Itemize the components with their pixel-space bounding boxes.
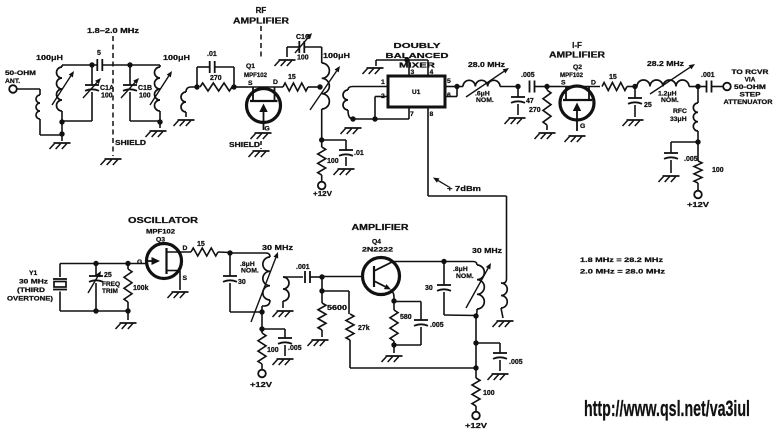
svg-text:Q4: Q4 (372, 239, 381, 246)
inductor L2 100uH (155, 53, 191, 111)
wire (234, 86, 248, 88)
variable arrow L1 (52, 71, 74, 105)
node (473, 340, 478, 345)
ground Q4 emitter (382, 345, 403, 362)
svg-text:.01: .01 (354, 150, 364, 157)
text +7dBm annotation (433, 178, 481, 194)
node (157, 119, 162, 124)
ground (341, 128, 362, 134)
ground C1C (275, 60, 296, 66)
inductor drain tank 100uH (322, 51, 350, 109)
text .6uH NOM (475, 91, 494, 105)
node output terminal (723, 83, 731, 91)
wire (230, 253, 266, 312)
node (59, 131, 64, 136)
svg-text:6: 6 (447, 92, 451, 99)
svg-text:25: 25 (104, 272, 112, 279)
capacitor .005 amp (476, 343, 523, 371)
inductor .6uH (457, 80, 518, 86)
text 100 osc (267, 347, 279, 354)
capacitor 25 (628, 87, 652, 118)
resistor 100 drain supply (318, 140, 326, 182)
variable arrow C1C (295, 33, 312, 53)
svg-text:27k: 27k (358, 325, 370, 332)
node (454, 84, 459, 89)
node (372, 116, 377, 121)
node (93, 308, 98, 313)
ground Q1 gate (251, 133, 272, 139)
svg-text:MPF102: MPF102 (244, 72, 267, 79)
svg-text:5: 5 (97, 50, 101, 57)
svg-text:NOM.: NOM. (456, 273, 474, 280)
ground mixer top (363, 68, 384, 74)
resistor 270 (200, 75, 232, 91)
capacitor 5pF feedthrough (97, 50, 130, 71)
svg-text:S: S (183, 275, 188, 282)
svg-text:100μH: 100μH (163, 53, 190, 62)
node +12V IF (687, 191, 709, 209)
inductor RF coupling winding (181, 87, 197, 117)
wire base (322, 276, 362, 278)
resistor 270 shunt (529, 87, 551, 131)
wire (130, 64, 160, 66)
wire gate rail (60, 263, 147, 265)
capacitor 30 osc (223, 253, 246, 312)
capacitor .01 bypass (339, 140, 364, 166)
ground (308, 340, 329, 346)
wire (547, 86, 560, 88)
inductor RFC 33uH (670, 87, 698, 143)
node (544, 84, 549, 89)
svg-text:STEP: STEP (740, 92, 762, 99)
svg-text:FREQ: FREQ (102, 281, 120, 288)
svg-text:S: S (561, 80, 566, 87)
svg-text:.8μH: .8μH (453, 266, 468, 273)
svg-text:100: 100 (139, 93, 151, 100)
node (473, 365, 478, 370)
wire emitter (393, 297, 395, 301)
svg-text:.005: .005 (288, 345, 302, 352)
svg-text:100μH: 100μH (323, 51, 350, 60)
capacitor .005 emitter (394, 302, 444, 346)
resistor 15 osc (191, 241, 218, 256)
pin 2 (375, 93, 388, 119)
svg-text:DOUBLY: DOUBLY (394, 41, 441, 50)
resistor 15 (283, 74, 308, 91)
svg-text:MPF102: MPF102 (146, 229, 175, 236)
svg-text:RF: RF (256, 6, 267, 15)
wire pins 3-4 ground rail (376, 60, 428, 66)
inductor LO coupling winding (501, 279, 507, 318)
svg-text:4: 4 (430, 69, 434, 76)
svg-text:2.0 MHz = 28.0 MHz: 2.0 MHz = 28.0 MHz (580, 269, 666, 276)
text 1.2uH NOM (658, 91, 679, 105)
capacitor 25 FREQ TRIM (89, 264, 120, 312)
wire ground rail (60, 310, 128, 312)
svg-text:U1: U1 (412, 89, 421, 96)
resistor 100 amp supply (472, 368, 480, 412)
wire (261, 312, 263, 329)
svg-text:SHIELD: SHIELD (115, 138, 146, 147)
ground Q2 gate (565, 136, 586, 142)
svg-text:15: 15 (197, 241, 205, 248)
node (404, 57, 409, 62)
svg-text:D: D (273, 79, 278, 86)
svg-text:1.8–2.0 MHz: 1.8–2.0 MHz (87, 26, 140, 35)
ground Q3 source (168, 292, 189, 298)
pin 8 (428, 107, 434, 196)
svg-text:.005: .005 (509, 359, 523, 366)
ground (493, 321, 514, 327)
wire (197, 67, 210, 87)
transistor Q3 MPF102 (137, 229, 191, 291)
svg-text:D: D (183, 245, 188, 252)
node (259, 326, 264, 331)
svg-text:G: G (580, 123, 585, 130)
wire (233, 67, 235, 87)
svg-text:OSCILLATOR: OSCILLATOR (128, 216, 198, 225)
variable arrow 1.2uH (650, 64, 695, 94)
text .8uH NOM amp (453, 266, 474, 280)
svg-text:+12V: +12V (313, 189, 332, 198)
svg-text:100: 100 (267, 347, 279, 354)
ground shield Q1 (249, 151, 270, 157)
svg-text:7: 7 (410, 111, 414, 118)
svg-text:50-OHM: 50-OHM (734, 84, 766, 91)
svg-text:100: 100 (297, 55, 309, 62)
svg-text:33μH: 33μH (670, 116, 687, 123)
ground (535, 133, 556, 139)
node (93, 261, 98, 266)
text AMPLIFIER Q4 (352, 223, 409, 232)
svg-text:.001: .001 (701, 72, 715, 79)
node +12V osc (250, 370, 272, 389)
inductor antenna primary winding (36, 89, 40, 135)
inductor .8uH amp tank (444, 262, 484, 316)
node (632, 84, 637, 89)
svg-text:30: 30 (425, 285, 433, 292)
ground (623, 120, 644, 126)
capacitor .001 out (698, 72, 724, 93)
wire (321, 109, 323, 140)
node (194, 84, 199, 89)
wire (627, 86, 637, 88)
capacitor .005 osc (262, 329, 302, 356)
svg-text:Q2: Q2 (573, 64, 582, 71)
svg-text:C1B: C1B (138, 85, 152, 92)
wire (218, 251, 230, 254)
svg-text:50-OHM: 50-OHM (5, 70, 36, 77)
svg-text:G: G (137, 259, 142, 266)
wire (322, 291, 349, 314)
text 100 (327, 158, 339, 165)
capacitor C1A 100 (85, 65, 114, 121)
wire (127, 311, 129, 320)
svg-text:100: 100 (101, 93, 113, 100)
wire LO feed (428, 196, 507, 279)
node (125, 261, 130, 266)
node +12V amp (465, 412, 487, 430)
inductor mixer coupling winding (343, 87, 360, 120)
wire (322, 139, 346, 141)
pin 5 (445, 78, 457, 87)
node (127, 62, 132, 67)
resistor 27k (346, 314, 370, 368)
inductor 1.2uH (637, 80, 698, 87)
svg-text:+12V: +12V (250, 380, 272, 389)
node (515, 84, 520, 89)
svg-text:NOM.: NOM. (476, 97, 494, 104)
svg-text:2N2222: 2N2222 (362, 247, 393, 254)
text 100 amp (483, 390, 495, 397)
resistor 5600 (318, 291, 347, 337)
text OSCILLATOR (128, 216, 198, 225)
variable arrow osc coil (251, 252, 278, 322)
pin 4 (428, 60, 434, 76)
pin 6 (445, 87, 457, 100)
svg-text:100μH: 100μH (36, 53, 63, 62)
variable arrow C1B (121, 78, 139, 98)
svg-text:http://www.qsl.net/va3iul: http://www.qsl.net/va3iul (584, 396, 750, 421)
resistor 15 IF (602, 74, 627, 91)
shield partition dashed line (113, 36, 146, 156)
shield dashed line RF amp (260, 26, 262, 60)
svg-text:NOM.: NOM. (661, 97, 679, 104)
svg-text:S: S (248, 80, 253, 87)
node (695, 139, 700, 144)
svg-text:15: 15 (609, 74, 617, 81)
ground (334, 169, 355, 175)
svg-text:28.0 MHz: 28.0 MHz (468, 60, 505, 69)
svg-text:100: 100 (483, 390, 495, 397)
svg-text:NOM.: NOM. (241, 268, 259, 275)
wire collector (393, 261, 444, 263)
text 1.8-2.0 MHz (87, 26, 140, 35)
shield dashed stub (260, 141, 262, 149)
svg-text:ATTENUATOR: ATTENUATOR (724, 99, 773, 106)
svg-text:30 MHz: 30 MHz (472, 246, 502, 255)
capacitor .005 series (521, 72, 547, 93)
node (391, 298, 396, 303)
svg-text:3: 3 (411, 69, 415, 76)
resistor 100k (124, 264, 149, 312)
inductor L1 100uH (36, 53, 63, 111)
svg-text:1.8 MHz = 28.2 MHz: 1.8 MHz = 28.2 MHz (580, 257, 664, 264)
pin 1 (360, 79, 388, 87)
node (319, 288, 324, 293)
inductor .8uH osc tank (262, 253, 270, 312)
ground shield (101, 159, 122, 165)
svg-text:25: 25 (644, 102, 652, 109)
svg-text:1: 1 (381, 79, 385, 86)
svg-text:100: 100 (327, 158, 339, 165)
transistor Q1 MPF102 (244, 63, 283, 133)
ground (273, 359, 294, 365)
svg-text:15: 15 (288, 74, 296, 81)
crystal Y1 30MHz (7, 264, 67, 312)
svg-text:RFC: RFC (673, 108, 687, 115)
capacitor .01 (207, 51, 234, 73)
svg-text:.001: .001 (296, 264, 310, 271)
ground (146, 131, 167, 137)
svg-text:AMPLIFIER: AMPLIFIER (233, 17, 289, 26)
node (89, 62, 94, 67)
mixer U1 box (388, 76, 445, 107)
text .8uH NOM osc (240, 261, 259, 275)
wire feedback rail (350, 367, 476, 369)
resistor 100 IF supply (694, 142, 702, 191)
capacitor C1C 100 trimmer (287, 34, 322, 63)
ground (488, 374, 509, 380)
svg-text:580: 580 (400, 314, 412, 321)
wire (308, 86, 320, 88)
svg-text:100k: 100k (133, 285, 149, 292)
wire (16, 88, 40, 90)
node (227, 250, 232, 255)
pin 7 (409, 107, 414, 119)
svg-text:.005: .005 (430, 322, 444, 329)
svg-text:47: 47 (526, 98, 534, 105)
node +12V (313, 182, 332, 198)
svg-text:Q1: Q1 (246, 63, 255, 70)
node (695, 84, 700, 89)
wire (62, 64, 98, 66)
ground (50, 143, 71, 149)
svg-text:8: 8 (430, 111, 434, 118)
node (391, 342, 396, 347)
wire (61, 111, 63, 141)
svg-text:D: D (591, 80, 596, 87)
variable arrow amp coil (466, 263, 491, 308)
ground (273, 311, 294, 317)
text 28.0 MHz (468, 60, 505, 69)
svg-text:G: G (265, 126, 270, 133)
capacitor .001 osc out (296, 264, 322, 283)
svg-text:270: 270 (210, 75, 222, 82)
variable arrow C1A (83, 78, 101, 98)
svg-text:SHIELD: SHIELD (229, 140, 260, 149)
wire (321, 277, 323, 291)
capacitor 30 amp (425, 262, 476, 316)
text 30 MHz amp (472, 246, 502, 255)
node (441, 259, 446, 264)
svg-text:Y1: Y1 (29, 270, 38, 277)
inductor osc coupling winding (283, 277, 303, 308)
svg-text:5: 5 (447, 78, 451, 85)
svg-text:C1A: C1A (100, 85, 114, 92)
svg-text:TO RCVR: TO RCVR (732, 69, 769, 76)
wire (353, 118, 409, 120)
svg-text:I-F: I-F (572, 41, 582, 50)
svg-text:30 MHz: 30 MHz (262, 243, 294, 252)
variable arrow drain coil (310, 66, 340, 110)
svg-text:+12V: +12V (465, 421, 487, 430)
resistor 580 (390, 301, 412, 345)
text SHIELD (229, 140, 260, 149)
text 28.2 MHz (647, 59, 684, 68)
ground osc (116, 323, 137, 329)
ground (174, 120, 195, 126)
ground (505, 118, 526, 124)
text 30 MHz osc (262, 243, 294, 252)
svg-text:Q3: Q3 (156, 237, 165, 244)
node ANT input terminal (5, 70, 36, 93)
svg-text:BALANCED: BALANCED (386, 51, 450, 60)
node (473, 313, 478, 318)
transistor Q4 2N2222 (362, 239, 400, 298)
variable arrow L2 (150, 71, 172, 105)
svg-text:(THIRD: (THIRD (17, 287, 45, 294)
svg-text:30 MHz: 30 MHz (19, 279, 49, 286)
node (231, 84, 236, 89)
svg-text:TRIM: TRIM (102, 288, 118, 295)
node (319, 274, 324, 279)
node (319, 137, 324, 142)
node (350, 116, 355, 121)
text DOUBLY BALANCED MIXER (386, 41, 450, 70)
pin 3 (409, 60, 415, 76)
capacitor .005 IF bypass (664, 142, 698, 173)
svg-text:28.2 MHz: 28.2 MHz (647, 59, 684, 68)
capacitor C1B 100 (123, 65, 152, 121)
text I-F AMPLIFIER (549, 41, 605, 60)
node (125, 308, 130, 313)
svg-text:.01: .01 (207, 51, 217, 58)
text URL (584, 396, 750, 421)
svg-text:+12V: +12V (687, 200, 709, 209)
wire (475, 316, 477, 368)
svg-text:MPF102: MPF102 (560, 72, 583, 79)
variable arrow .6uH (466, 68, 509, 97)
wire (130, 111, 160, 128)
svg-text:30: 30 (238, 279, 246, 286)
variable arrow trim (88, 271, 101, 293)
svg-text:AMPLIFIER: AMPLIFIER (352, 223, 409, 232)
text TO RCVR VIA... (724, 69, 773, 106)
node (259, 309, 264, 314)
wire (40, 134, 62, 136)
svg-text:270: 270 (529, 107, 541, 114)
text frequency table (580, 257, 666, 276)
svg-text:.005: .005 (684, 156, 698, 163)
svg-text:.005: .005 (521, 72, 535, 79)
ground (659, 176, 680, 182)
text 100 IF (712, 167, 724, 174)
node (317, 84, 322, 89)
svg-text:VIA: VIA (745, 77, 756, 84)
svg-text:5600: 5600 (327, 305, 347, 312)
svg-text:ANT.: ANT. (5, 78, 20, 85)
svg-text:+ 7dBm: + 7dBm (447, 184, 481, 193)
svg-text:AMPLIFIER: AMPLIFIER (549, 51, 605, 60)
node (59, 119, 64, 124)
capacitor 47 (511, 87, 534, 116)
wire (62, 120, 92, 122)
text RF AMPLIFIER (233, 6, 289, 26)
transistor Q2 MPF102 (560, 64, 600, 131)
svg-text:OVERTONE): OVERTONE) (7, 296, 53, 303)
resistor 100 osc supply (258, 329, 266, 370)
svg-text:100: 100 (712, 167, 724, 174)
